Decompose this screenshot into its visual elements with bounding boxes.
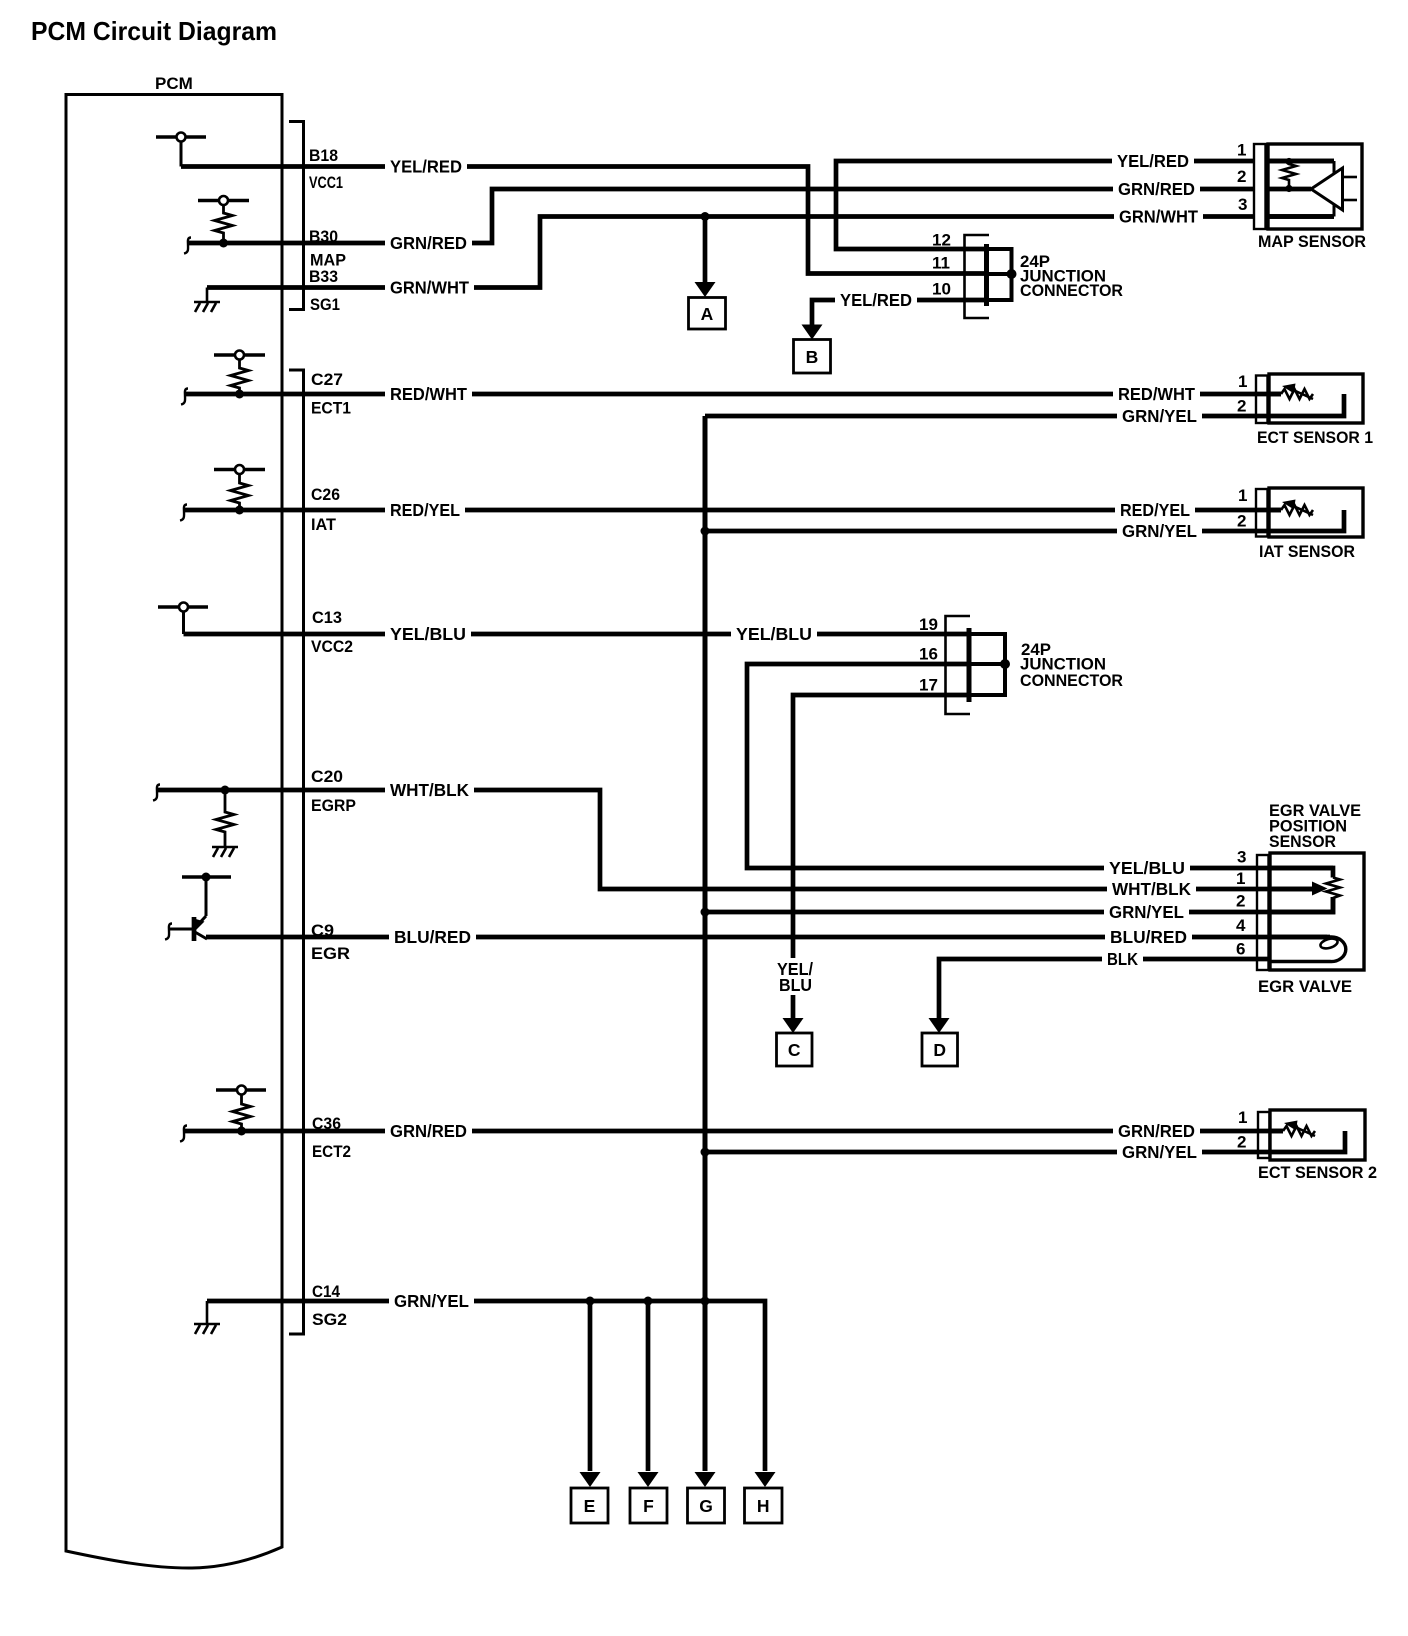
wire drop to E — [588, 1301, 593, 1471]
label YEL/BLU (EGR) — [1104, 858, 1190, 878]
svg-text:ECT SENSOR 1: ECT SENSOR 1 — [1257, 428, 1373, 447]
svg-text:B: B — [806, 347, 819, 367]
connector bracket B — [289, 122, 304, 310]
arrow G — [695, 1472, 716, 1487]
svg-text:C27: C27 — [311, 370, 343, 389]
wire hook C20 — [153, 785, 160, 801]
svg-text:2: 2 — [1237, 1133, 1246, 1152]
wire junction pin 17 to C — [793, 695, 969, 1020]
svg-text:RED/WHT: RED/WHT — [1118, 384, 1195, 404]
24P junction connector 2 bus — [970, 634, 1005, 695]
svg-text:SENSOR: SENSOR — [1269, 832, 1336, 851]
svg-text:BLU/RED: BLU/RED — [394, 927, 471, 947]
wire B33 GRN/WHT to MAP pin 3 — [207, 217, 1334, 288]
EGR valve connector bar — [1257, 855, 1269, 970]
svg-text:GRN/RED: GRN/RED — [1118, 179, 1195, 199]
wire drop to A — [703, 217, 708, 284]
svg-text:SG1: SG1 — [310, 295, 340, 314]
24P junction connector 1 bracket — [965, 235, 990, 318]
svg-text:4: 4 — [1236, 916, 1246, 935]
wire BLK EGR pin 6 to D — [939, 959, 1268, 1020]
junction dot G — [701, 1297, 710, 1306]
ground SG2 — [194, 1301, 220, 1334]
wire C13 YEL/BLU to junction pin 19 — [184, 632, 970, 637]
svg-text:RED/YEL: RED/YEL — [390, 500, 460, 520]
label YEL/RED (pin 10) — [835, 290, 917, 310]
MAP sensor connector bar — [1254, 144, 1266, 229]
svg-text:GRN/WHT: GRN/WHT — [1119, 207, 1198, 227]
svg-text:6: 6 — [1236, 940, 1245, 959]
arrow C — [783, 1018, 804, 1033]
wire hook C36 — [180, 1126, 187, 1142]
connector box E — [571, 1488, 608, 1523]
EGR VALVE POSITION SENSOR label — [1269, 801, 1361, 851]
ECT sensor 2 box — [1270, 1110, 1365, 1160]
label YEL/RED (B18) — [385, 157, 467, 177]
transistor node bar — [182, 875, 231, 879]
EGR pin wires through bar — [1257, 868, 1270, 959]
arrow F — [638, 1472, 659, 1487]
connector box C — [777, 1033, 813, 1066]
MAP sensor box — [1268, 144, 1362, 229]
label RED/YEL (IAT) — [1115, 500, 1195, 520]
EGR pot wiper wire — [1270, 887, 1313, 892]
label RED/WHT (C27) — [385, 384, 472, 404]
svg-text:GRN/YEL: GRN/YEL — [1122, 406, 1197, 426]
svg-text:A: A — [701, 304, 714, 324]
svg-text:C20: C20 — [311, 767, 343, 786]
IAT thermistor — [1281, 505, 1313, 515]
junction dot B30 — [219, 239, 228, 248]
label GRN/RED (B30) — [385, 233, 472, 253]
MAP internal amp triangle — [1311, 168, 1343, 210]
transistor arrowhead — [194, 919, 205, 931]
label WHT/BLK (C20) — [385, 780, 474, 800]
arrow H — [755, 1472, 776, 1487]
svg-text:GRN/RED: GRN/RED — [390, 1121, 467, 1141]
wire drop to F — [646, 1301, 651, 1471]
wire C27 RED/WHT to ECT sensor 1 pin 1 — [185, 392, 1281, 397]
wire B30 GRN/RED to MAP pin 2 — [188, 189, 1311, 243]
24P junction connector 1 dot — [1007, 269, 1017, 279]
connector bracket C — [289, 370, 304, 1334]
svg-text:D: D — [933, 1040, 946, 1060]
wire GRN/YEL IAT pin 2 — [705, 510, 1344, 531]
arrow A — [695, 282, 716, 297]
label BLK (EGR) — [1102, 949, 1143, 969]
svg-text:VCC2: VCC2 — [311, 637, 353, 656]
ECT2 thermistor arrow — [1284, 1121, 1315, 1137]
ECT2 thermistor — [1283, 1126, 1315, 1136]
svg-text:2: 2 — [1237, 397, 1246, 416]
svg-text:VCC1: VCC1 — [309, 173, 343, 192]
svg-text:C14: C14 — [312, 1282, 340, 1301]
svg-text:IAT SENSOR: IAT SENSOR — [1259, 542, 1355, 561]
svg-text:WHT/BLK: WHT/BLK — [390, 780, 469, 800]
svg-text:IAT: IAT — [311, 515, 337, 534]
wire junction pin 16 to EGR pin 3 YEL/BLU — [747, 664, 1333, 878]
wire C9 BLU/RED to EGR pin 4 — [206, 935, 1330, 940]
junction dot C20 — [221, 786, 230, 795]
ECT1 thermistor — [1281, 389, 1313, 399]
IAT thermistor arrow — [1282, 500, 1313, 516]
svg-text:MAP SENSOR: MAP SENSOR — [1258, 232, 1366, 251]
ECT2 pin wires through bar — [1258, 1131, 1283, 1152]
wire hook B30 — [184, 238, 191, 254]
power node VCC1 — [156, 133, 206, 167]
24P junction connector 2 bar — [967, 628, 972, 702]
svg-text:10: 10 — [932, 280, 951, 299]
label GRN/RED (MAP) — [1113, 179, 1200, 199]
svg-text:B18: B18 — [309, 146, 338, 165]
label GRN/YEL (ECT2) — [1117, 1142, 1202, 1162]
svg-text:F: F — [643, 1496, 654, 1516]
svg-text:2: 2 — [1237, 512, 1246, 531]
IAT pin wires through bar — [1256, 510, 1281, 531]
EGR pot top drop — [1332, 868, 1335, 878]
label GRN/RED (ECT2) — [1113, 1121, 1200, 1141]
label GRN/YEL (ECT1) — [1117, 406, 1202, 426]
MAP resistor dots — [1285, 158, 1292, 165]
IAT sensor box — [1269, 488, 1363, 537]
svg-text:SG2: SG2 — [312, 1310, 347, 1329]
label YEL/RED (MAP) — [1112, 151, 1194, 171]
connector box D — [922, 1033, 958, 1066]
label GRN/YEL (C14) — [389, 1291, 474, 1311]
svg-text:PCM: PCM — [155, 74, 193, 93]
svg-text:YEL/BLU: YEL/BLU — [1109, 858, 1185, 878]
junction dot GRN/YEL ECT2 — [701, 1148, 710, 1157]
svg-text:12: 12 — [932, 231, 951, 250]
svg-text:11: 11 — [932, 254, 950, 273]
wire GRN/YEL ECT1 pin 2 — [705, 394, 1344, 416]
wire hook C27 — [181, 389, 188, 405]
svg-text:19: 19 — [919, 615, 938, 634]
wire hook C9 base — [165, 924, 172, 940]
svg-text:YEL/BLU: YEL/BLU — [736, 624, 812, 644]
junction dot C26 — [235, 506, 244, 515]
svg-text:BLK: BLK — [1107, 949, 1138, 969]
connector box G — [688, 1488, 725, 1523]
svg-text:16: 16 — [919, 645, 938, 664]
ECT sensor 1 box — [1269, 374, 1363, 423]
svg-text:GRN/YEL: GRN/YEL — [1122, 1142, 1197, 1162]
wire GRN/YEL EGR pin 2 — [705, 897, 1333, 912]
ECT sensor 2 connector bar — [1258, 1112, 1270, 1158]
wire GRN/YEL ECT2 pin 2 — [705, 1131, 1345, 1152]
long vertical GRN/YEL wire to G — [703, 416, 708, 1471]
svg-text:GRN/WHT: GRN/WHT — [390, 278, 469, 298]
connector box B — [794, 340, 831, 374]
svg-text:B33: B33 — [309, 267, 338, 286]
svg-text:1: 1 — [1238, 486, 1247, 505]
MAP pin1 wire inside — [1265, 159, 1334, 164]
label GRN/WHT (B33) — [385, 278, 474, 298]
svg-text:RED/WHT: RED/WHT — [390, 384, 467, 404]
wire MAP pin1 YEL/RED to junction pin 12 — [836, 161, 1334, 249]
ground SG1 — [194, 288, 220, 313]
wire C20 WHT/BLK to EGR pin 1 — [157, 790, 1313, 889]
EGR potentiometer resistor — [1326, 878, 1340, 899]
svg-text:E: E — [584, 1496, 596, 1516]
svg-text:C26: C26 — [311, 485, 340, 504]
node A junction dot — [701, 212, 710, 221]
ECT1 pin wires through bar — [1256, 394, 1281, 416]
label GRN/RED (C36) — [385, 1121, 472, 1141]
svg-text:GRN/YEL: GRN/YEL — [394, 1291, 469, 1311]
svg-text:CONNECTOR: CONNECTOR — [1020, 672, 1123, 690]
junction dot C36 — [237, 1127, 246, 1136]
wire C36 GRN/RED to ECT sensor 2 pin 1 — [184, 1129, 1283, 1134]
label BLU/RED (EGR) — [1105, 927, 1192, 947]
label RED/YEL (C26) — [385, 500, 465, 520]
svg-text:EGR VALVE: EGR VALVE — [1258, 977, 1352, 996]
svg-text:C9: C9 — [311, 921, 334, 940]
24P junction connector 1 bus — [988, 249, 1012, 300]
svg-text:WHT/BLK: WHT/BLK — [1112, 879, 1191, 899]
EGR pot top wire — [1270, 866, 1333, 871]
label YEL/BLU (mid) — [731, 624, 817, 644]
label GRN/WHT (MAP) — [1114, 207, 1203, 227]
connector box A — [689, 298, 726, 330]
arrow D — [929, 1018, 950, 1033]
ECT1 thermistor arrow — [1282, 384, 1313, 400]
svg-text:3: 3 — [1237, 848, 1246, 867]
arrow B — [802, 325, 823, 340]
EGR solenoid loop — [1319, 937, 1338, 950]
EGR pin2 wire inside — [1270, 897, 1333, 912]
label BLU/RED (C9) — [389, 927, 476, 947]
svg-text:G: G — [699, 1496, 713, 1516]
label YEL/BLU (C13) — [385, 624, 471, 644]
svg-text:1: 1 — [1238, 1108, 1247, 1127]
wire hook C26 — [180, 505, 187, 521]
svg-text:YEL/BLU: YEL/BLU — [390, 624, 466, 644]
svg-text:2: 2 — [1236, 892, 1245, 911]
EGR valve box — [1270, 853, 1364, 970]
ground C20 — [212, 847, 238, 857]
ECT sensor 1 connector bar — [1256, 376, 1268, 424]
junction dot GRN/YEL EGR — [701, 908, 710, 917]
junction dot GRN/YEL IAT — [701, 527, 710, 536]
svg-text:BLU: BLU — [779, 975, 812, 995]
24P junction connector 2 dot — [1000, 659, 1010, 669]
label YEL/BLU (C drop) — [772, 958, 822, 995]
label GRN/YEL (EGR) — [1104, 902, 1189, 922]
transistor node dot — [202, 873, 211, 882]
24P junction connector 2 label — [1020, 641, 1123, 690]
resistor C20 to ground — [216, 790, 234, 847]
svg-text:EGR: EGR — [311, 944, 350, 963]
svg-text:ECT1: ECT1 — [311, 399, 351, 418]
junction dot F — [644, 1297, 653, 1306]
svg-text:RED/YEL: RED/YEL — [1120, 500, 1190, 520]
wire junction pin 10 YEL/RED to B — [812, 300, 986, 326]
svg-text:YEL/RED: YEL/RED — [840, 290, 912, 310]
svg-text:YEL/RED: YEL/RED — [390, 157, 462, 177]
svg-text:GRN/RED: GRN/RED — [390, 233, 467, 253]
IAT sensor connector bar — [1256, 489, 1268, 537]
connector box F — [630, 1488, 667, 1523]
svg-text:PCM Circuit Diagram: PCM Circuit Diagram — [31, 16, 277, 46]
label WHT/BLK (EGR) — [1107, 879, 1196, 899]
svg-text:H: H — [757, 1496, 770, 1516]
power node VCC2 — [158, 603, 208, 635]
svg-text:GRN/YEL: GRN/YEL — [1122, 521, 1197, 541]
svg-text:JUNCTION: JUNCTION — [1020, 656, 1106, 674]
EGR solenoid coil — [1270, 937, 1346, 962]
label GRN/YEL (IAT) — [1117, 521, 1202, 541]
transistor Q1 — [169, 877, 207, 941]
svg-text:B30: B30 — [309, 227, 338, 246]
svg-text:3: 3 — [1238, 195, 1247, 214]
svg-text:GRN/RED: GRN/RED — [1118, 1121, 1195, 1141]
24P junction connector 2 bracket — [946, 616, 971, 714]
EGR wiper arrow — [1312, 882, 1328, 896]
svg-text:GRN/YEL: GRN/YEL — [1109, 902, 1184, 922]
svg-text:BLU/RED: BLU/RED — [1110, 927, 1187, 947]
svg-text:C: C — [788, 1040, 801, 1060]
svg-text:ECT SENSOR 2: ECT SENSOR 2 — [1258, 1163, 1377, 1182]
MAP pin3 wire inside — [1265, 214, 1334, 219]
svg-text:CONNECTOR: CONNECTOR — [1020, 282, 1123, 300]
junction dot C27 — [235, 390, 244, 399]
EGR pin4 wire inside — [1270, 935, 1327, 940]
wire B18 YEL/RED to junction pin 11 — [181, 167, 986, 274]
PCM box — [66, 95, 282, 1569]
wire C26 RED/YEL to IAT sensor pin 1 — [184, 508, 1281, 513]
connector box H — [745, 1488, 783, 1523]
svg-text:2: 2 — [1237, 167, 1246, 186]
svg-text:1: 1 — [1238, 372, 1247, 391]
svg-text:1: 1 — [1237, 141, 1246, 160]
24P junction connector 1 label — [1020, 253, 1123, 300]
MAP pin1 internal stub — [1333, 161, 1336, 174]
MAP internal resistor — [1282, 161, 1296, 187]
svg-text:1: 1 — [1236, 869, 1245, 888]
svg-text:YEL/RED: YEL/RED — [1117, 151, 1189, 171]
svg-text:ECT2: ECT2 — [312, 1142, 351, 1161]
resistor at C26 — [214, 465, 265, 510]
label RED/WHT (ECT1) — [1113, 384, 1200, 404]
wire C14 GRN/YEL bus to H — [207, 1301, 765, 1471]
arrow E — [580, 1472, 601, 1487]
resistor at C27 — [214, 351, 265, 395]
24P junction connector 1 bar — [984, 244, 989, 306]
svg-text:C13: C13 — [312, 608, 342, 627]
MAP amp stubs — [1343, 177, 1358, 200]
resistor at C36 — [216, 1086, 266, 1132]
svg-text:C36: C36 — [312, 1114, 341, 1133]
junction dot E — [586, 1297, 595, 1306]
svg-text:EGRP: EGRP — [311, 796, 356, 815]
svg-text:17: 17 — [919, 676, 938, 695]
MAP pin3 internal stub — [1333, 204, 1336, 217]
resistor at B30 — [198, 196, 249, 243]
